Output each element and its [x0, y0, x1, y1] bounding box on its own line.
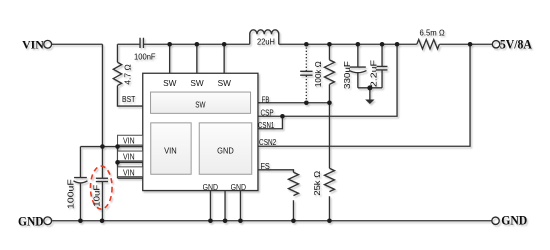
IC U1 inner block GND: [199, 123, 252, 174]
node dot VIN wire rail: [100, 144, 105, 149]
wire VIN pin 3 line: [118, 177, 143, 179]
svg-text:2.2uF: 2.2uF: [368, 60, 378, 87]
node dot rail gnd pin2: [223, 218, 228, 223]
node dot CSN2 top: [468, 42, 473, 47]
node dot rail gnd pin3: [238, 218, 243, 223]
node dot 330uF top: [356, 42, 361, 47]
wire 2.2uF bottom lead: [381, 70, 383, 88]
capacitor C-OUT1 330uF top lead: [357, 44, 359, 67]
capacitor C-OUT1 330uF plates: [350, 66, 366, 68]
wire 100nF to SW node: [143, 43, 249, 45]
inductor L1 22uH: [250, 30, 279, 44]
capacitor C-IN1 100uF polarized plates: [74, 177, 87, 179]
svg-text:GND: GND: [203, 183, 219, 192]
svg-text:100k Ω: 100k Ω: [313, 61, 323, 87]
annotation ellipse around 10uF: [90, 166, 112, 209]
node dot FB-Cff: [304, 100, 309, 105]
svg-text:6.5m Ω: 6.5m Ω: [420, 28, 446, 38]
wire VIN pins vertical connector: [117, 147, 119, 179]
IC U1 inner block SW: [151, 92, 251, 113]
svg-text:4.7 Ω: 4.7 Ω: [123, 64, 133, 85]
node dot 2.2uF top: [380, 42, 385, 47]
node dot rail 100uF: [78, 218, 83, 223]
svg-text:GND: GND: [501, 213, 527, 227]
svg-text:BST: BST: [122, 95, 135, 104]
wire output caps ground junction: [358, 87, 382, 89]
wire output node: [279, 43, 417, 45]
svg-text:VIN: VIN: [164, 147, 177, 156]
wire VIN pins horizontal: [80, 146, 142, 148]
pin box VIN1: [118, 135, 143, 145]
pin box VIN2: [118, 151, 143, 161]
IC U1 inner block VIN: [151, 123, 191, 174]
svg-text:VIN: VIN: [22, 37, 44, 51]
node dot rail 25k: [327, 218, 332, 223]
node dot VIN pin1: [115, 144, 120, 149]
resistor R-FB2 25k zigzag: [324, 168, 334, 191]
svg-text:100uF: 100uF: [65, 179, 75, 209]
node dot output caps gnd: [367, 85, 372, 90]
node dot SW pin2: [195, 42, 200, 47]
svg-text:GND: GND: [18, 214, 44, 228]
wire GND rail: [52, 220, 492, 222]
terminal circle GND right: [492, 217, 499, 224]
svg-text:SW: SW: [190, 79, 204, 88]
svg-text:GND: GND: [217, 147, 234, 156]
svg-text:VIN: VIN: [123, 137, 135, 146]
wire 330uF bottom lead: [357, 73, 359, 88]
node dot SW pin1: [167, 42, 172, 47]
node dot 100k top: [327, 42, 332, 47]
wire 6.5m to output terminal: [439, 43, 492, 45]
svg-text:FB: FB: [262, 95, 270, 104]
node dot VIN pin2: [115, 160, 120, 165]
wire 100uF top lead: [79, 147, 81, 178]
wire IC GND pin 3: [239, 191, 241, 221]
wire CSN2 sense vertical: [258, 44, 470, 146]
wire IC GND pin 1: [209, 191, 211, 221]
svg-text:330uF: 330uF: [342, 61, 352, 89]
wire FB line: [258, 102, 330, 104]
svg-text:100nF: 100nF: [134, 51, 156, 61]
svg-text:25k Ω: 25k Ω: [312, 170, 322, 196]
svg-text:10uF: 10uF: [92, 185, 102, 207]
node dot SW pin3: [222, 42, 227, 47]
wire 10uF bottom to GND rail: [101, 182, 103, 221]
node dot FB-100k: [327, 100, 332, 105]
node dot CSP top: [395, 42, 400, 47]
svg-text:GND: GND: [231, 183, 247, 192]
capacitor C-IN2 10uF plates: [96, 177, 108, 179]
resistor R-CS 6.5mOhm zigzag: [417, 40, 440, 49]
node dot CSP-CSN1: [280, 114, 285, 119]
svg-text:VIN: VIN: [123, 152, 135, 161]
node dot Cff top: [304, 42, 309, 47]
wire 100k bottom lead: [328, 84, 330, 102]
wire CSP to CSN1 connector: [258, 116, 283, 129]
svg-text:SW: SW: [195, 100, 206, 109]
wire SW pin 2: [196, 44, 198, 73]
IC U1 outer body: [143, 73, 258, 190]
wire FS pin line: [258, 170, 294, 172]
wire IC GND pin 2: [224, 191, 226, 221]
pin box VIN3: [118, 167, 143, 177]
wire SW pin 3: [223, 44, 225, 73]
capacitor C-BST 100nF plates: [140, 38, 143, 48]
capacitor C-FF dashed leads: [305, 44, 307, 71]
resistor R-FB1 100k top lead: [328, 44, 330, 60]
node dot rail 10uF: [100, 218, 105, 223]
wire CSP sense vertical: [258, 44, 397, 116]
wire 25k vertical from FB crossing CSN2: [328, 103, 330, 169]
node dot rail gnd pin1: [208, 218, 213, 223]
wire 100uF bottom lead: [79, 183, 81, 221]
svg-text:CSN2: CSN2: [259, 138, 277, 147]
terminal circle VIN: [44, 40, 52, 48]
capacitor C-OUT2 2.2uF plates: [377, 66, 388, 70]
svg-text:VIN: VIN: [123, 168, 135, 177]
wire 100nF left lead: [117, 43, 140, 45]
wire ground stub: [369, 88, 371, 100]
svg-text:22uH: 22uH: [257, 36, 275, 46]
svg-text:CSN1: CSN1: [258, 121, 275, 130]
wire VIN terminal to corner: [52, 43, 102, 45]
resistor R-FS zigzag: [288, 172, 298, 195]
wire FS resistor bottom lead: [292, 200, 294, 221]
wire VIN vertical rail down to 10uF top: [101, 44, 103, 178]
wire bootstrap corner down to 4.7ohm: [116, 44, 118, 62]
ground symbol arrow: [365, 99, 374, 104]
wire 4.7ohm to BST pin: [117, 86, 142, 106]
capacitor C-OUT2 2.2uF top lead: [381, 44, 383, 66]
wire 25k bottom lead: [328, 196, 330, 221]
svg-text:FS: FS: [260, 162, 269, 171]
terminal circle GND left: [44, 217, 52, 225]
terminal circle 5V/8A: [492, 41, 499, 48]
svg-text:SW: SW: [163, 79, 177, 88]
wire FB pin stub: [258, 102, 260, 104]
resistor R-BST 4.7ohm zigzag: [113, 62, 121, 85]
svg-text:SW: SW: [218, 79, 232, 88]
wire VIN pin 2 line: [118, 161, 143, 163]
capacitor C-FF plates: [300, 71, 312, 75]
wire SW pin 1: [169, 44, 171, 73]
resistor R-FB1 100k zigzag: [324, 60, 334, 85]
svg-text:5V/8A: 5V/8A: [500, 37, 532, 51]
node dot rail FS resistor: [291, 218, 296, 223]
svg-text:CSP: CSP: [260, 108, 273, 117]
